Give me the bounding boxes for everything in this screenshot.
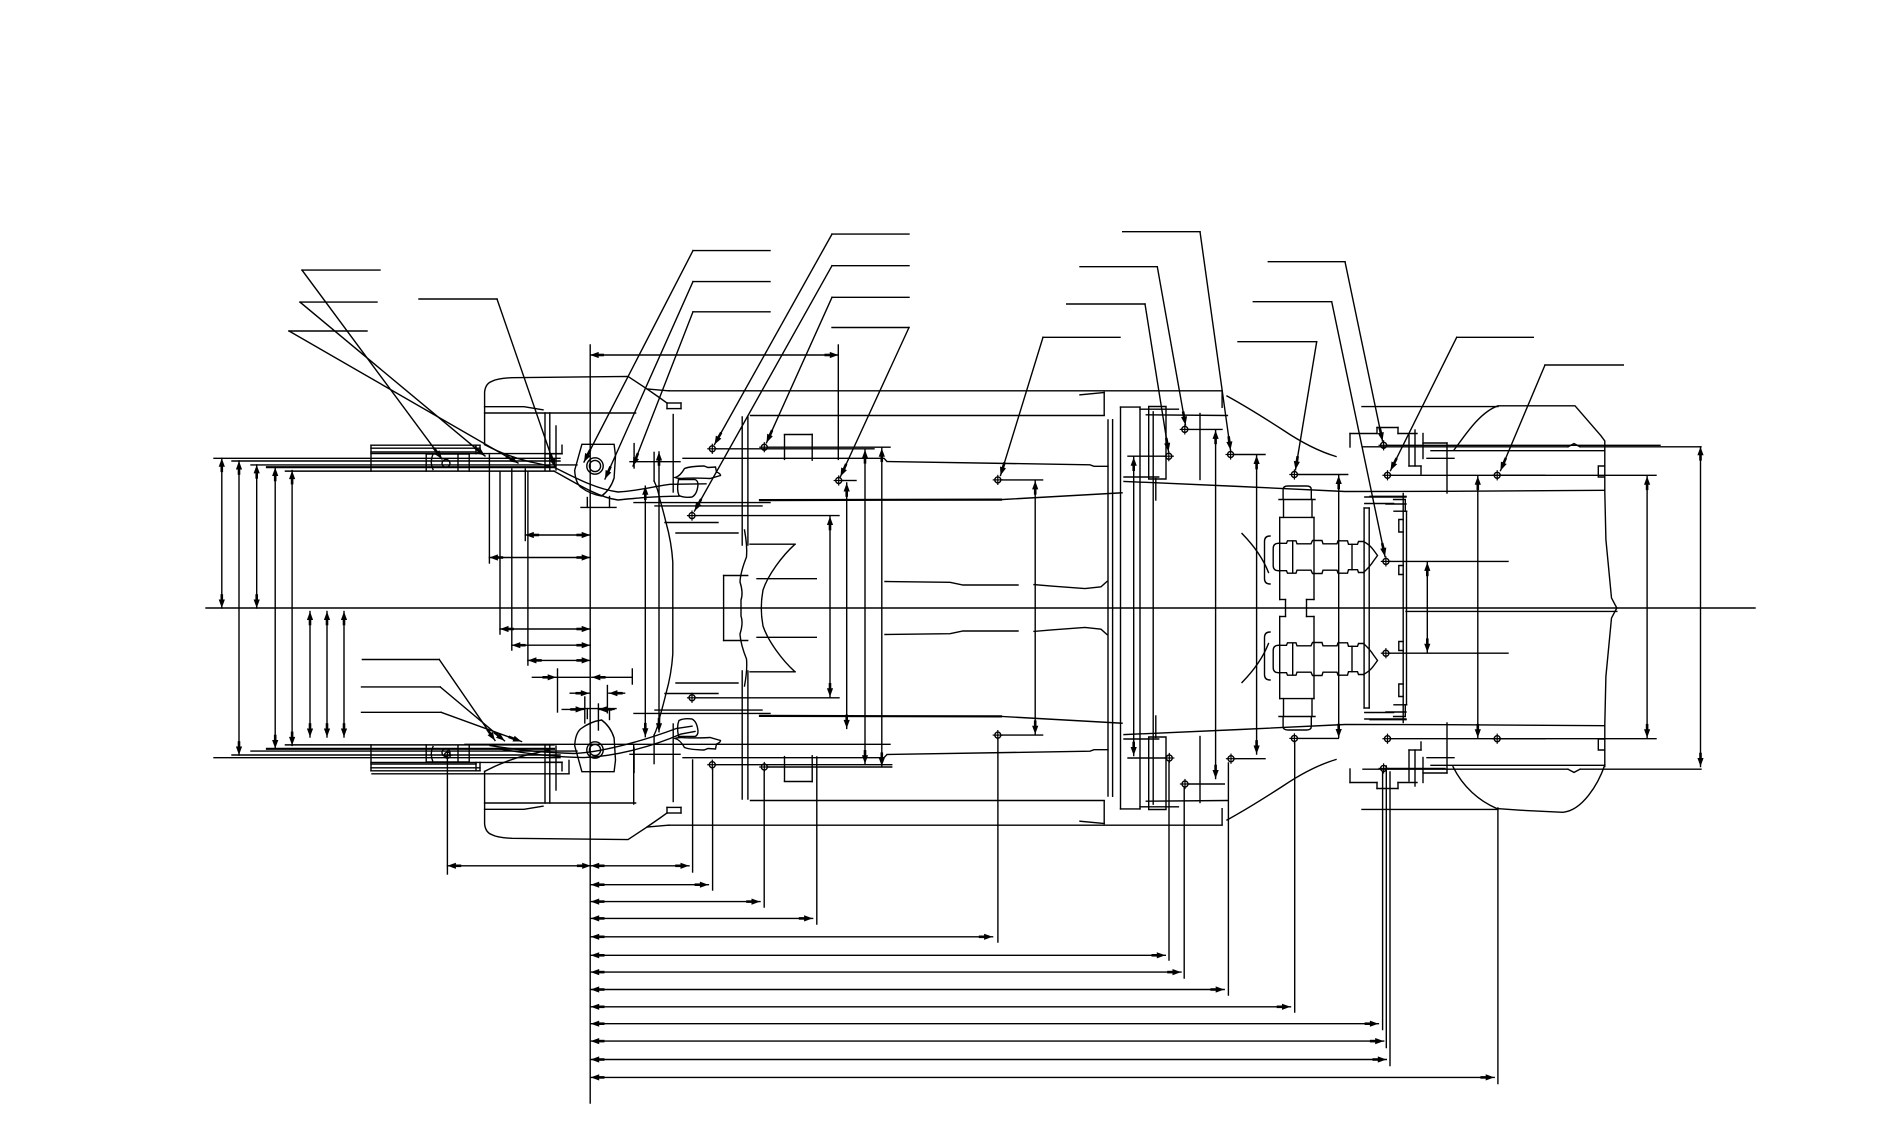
vertical dimension: front floor datum width 2 — [881, 448, 883, 766]
leader: axle end datum — [1253, 301, 1331, 303]
vertical dimension: centerline to lower rail a — [309, 612, 311, 738]
vertical dimension: rear arm datum width — [1215, 430, 1217, 778]
datum point: rear panel lower — [1494, 736, 1500, 742]
datum point: rear rail top — [1381, 442, 1387, 448]
vertical dimension: rail line 2 width — [238, 461, 240, 755]
leader: rail end clip — [419, 298, 497, 300]
vertical dimension: rear spring datum width — [1338, 476, 1340, 738]
datum point: axle end — [1383, 558, 1389, 564]
leader: spring front datum — [1238, 341, 1317, 343]
leader: rear panel datum — [1545, 364, 1623, 366]
datum point: rear rail top lower — [1381, 765, 1387, 771]
datum point: trailing arm lower — [1182, 781, 1188, 787]
datum point: mid floor lower — [995, 732, 1001, 738]
datum point: crossmember front — [1166, 453, 1172, 459]
leader: cowl side datum — [832, 233, 909, 235]
datum point: spring front — [1291, 472, 1297, 478]
vehicle centerline — [206, 607, 1755, 609]
vertical dimension: centerline to lower rail b — [326, 612, 328, 738]
datum point: rear rail lower — [1385, 736, 1391, 742]
horizontal dimension: torque box to datum — [525, 534, 590, 536]
vertical dimension: rail line 1 to centerline — [221, 458, 223, 608]
horizontal dimension: lower rail step to datum — [512, 644, 590, 646]
datum point: sill front — [761, 444, 767, 450]
leader: torque box edge — [693, 311, 770, 313]
leader: bumper clip c — [289, 330, 367, 332]
horizontal dimension: apron to datum — [489, 557, 590, 559]
leader: sill front datum — [832, 296, 909, 298]
vertical dimension: sill reference width — [846, 483, 848, 728]
datum point: front floor — [836, 478, 842, 484]
leader: rear bracket datum — [1123, 231, 1200, 233]
datum point: cowl side front — [709, 446, 715, 452]
leader: front floor datum — [832, 327, 909, 329]
horizontal dimension: strut datum to cowl — [590, 354, 838, 356]
leader: rear rail top datum — [1268, 261, 1345, 263]
datum point: trailing arm — [1182, 426, 1188, 432]
datum point: cowl side front lower — [709, 762, 715, 768]
leader: bumper clip b — [300, 301, 377, 303]
leader: rear rail datum — [1457, 336, 1534, 338]
vertical dimension: rail flange width — [291, 471, 293, 746]
datum point: axle end lower — [1383, 650, 1389, 656]
horizontal dimension: lower apron to datum — [500, 628, 590, 630]
datum point: rear bracket — [1228, 452, 1234, 458]
datum point: rear panel — [1494, 472, 1500, 478]
leader: lower rail clip b — [362, 686, 441, 688]
rail sweep curves and rear deck outline — [1454, 406, 1605, 450]
vertical dimension: rear bracket datum width — [1256, 456, 1258, 755]
datum point: crossmember front lower — [1166, 755, 1172, 761]
vertical dimension: rear panel datum width — [1646, 476, 1648, 737]
extension lines from datum points down to dimension rows — [446, 760, 448, 874]
leader: lower rail clip a — [362, 659, 439, 661]
leader: trailing arm datum — [1080, 266, 1157, 268]
datum point: rear bracket lower — [1228, 756, 1234, 762]
leader: rail lower flange — [693, 281, 770, 283]
datum point: torque box — [689, 513, 695, 519]
vertical dimension: axle hub spacing — [1426, 562, 1428, 652]
horizontal dimension: lower torque box to datum — [528, 659, 590, 661]
datum point: mid floor — [995, 477, 1001, 483]
vertical dimension: rail line 3 to centerline — [256, 465, 258, 608]
leader: bumper clip a — [302, 269, 380, 271]
datum point: torque box lower — [689, 695, 695, 701]
vertical dimension: crossmember datum width — [1133, 457, 1135, 755]
vertical dimension: rail line 4 width — [274, 468, 276, 749]
datum point: rear rail — [1385, 472, 1391, 478]
vertical dimension: mid floor datum width — [1034, 481, 1036, 734]
small dimensions around strut datum — [532, 676, 589, 678]
datum point: lower bumper bracket — [444, 752, 450, 758]
leader: strut tower — [693, 250, 770, 252]
vertical dimension: quarter datum width — [1477, 476, 1479, 737]
leader: mid floor datum — [1043, 336, 1120, 338]
stacked longitudinal dimension rows from front datum — [591, 865, 689, 867]
vertical dimension: strut tower span — [644, 486, 646, 737]
vertical dimension: floor datum pair — [829, 517, 831, 697]
datum point: spring front lower — [1291, 735, 1297, 741]
vertical dimension: rail top span — [658, 452, 660, 732]
leader: lower rail clip c — [362, 711, 442, 713]
vertical dimension: front floor datum width — [864, 450, 866, 764]
leader: crossmember datum — [1067, 303, 1145, 305]
datum point: sill front lower — [761, 764, 767, 770]
vertical dimension: centerline to lower rail c — [343, 612, 345, 738]
vehicle underbody outline: rails, bumper brackets, strut towers, floor pan, crossmember, axle, rear body (top half and mirrored bottom half) — [214, 457, 560, 459]
leader: torque box datum — [832, 265, 909, 267]
vertical dimension: overall body width — [1700, 447, 1702, 767]
